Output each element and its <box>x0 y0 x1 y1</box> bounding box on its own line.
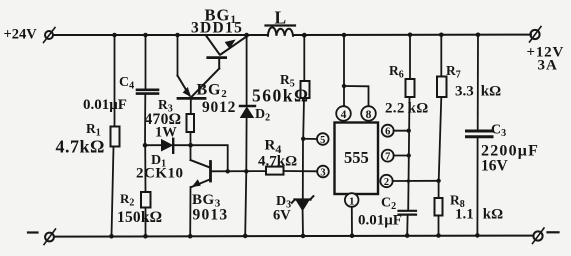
zener D3 <box>292 196 314 210</box>
wire top rail left of inductor <box>53 34 268 36</box>
svg-text:0.01μF: 0.01μF <box>83 97 127 113</box>
wire D1 node down to BG3 collector <box>190 145 192 160</box>
wire D3 to bottom rail <box>302 210 304 236</box>
resistor R5 <box>301 81 310 98</box>
svg-text:1: 1 <box>349 196 355 208</box>
pin 5 circle <box>317 133 329 146</box>
svg-text:4.7kΩ: 4.7kΩ <box>258 154 297 170</box>
node bottom rail D3 <box>301 234 306 239</box>
wire pin2 line to R8 branch <box>393 180 439 182</box>
resistor R1 branch wire top <box>114 35 116 127</box>
wire pin6 stub <box>394 130 409 132</box>
svg-text:3A: 3A <box>538 58 558 74</box>
pin 1 circle <box>345 193 359 207</box>
svg-text:8: 8 <box>366 109 372 121</box>
svg-text:R7: R7 <box>446 63 461 81</box>
pin 2 circle <box>380 175 392 188</box>
svg-text:4.7kΩ: 4.7kΩ <box>56 137 105 157</box>
resistor R8 <box>435 198 443 216</box>
wire R4 to pin3 <box>284 170 318 172</box>
resistor R7 <box>437 77 447 98</box>
pin 3 circle <box>317 166 329 179</box>
node pin5 <box>301 137 305 141</box>
svg-text:C4: C4 <box>119 75 134 92</box>
svg-text:6: 6 <box>385 127 390 138</box>
minus sign left <box>28 231 38 233</box>
svg-text:C3: C3 <box>491 123 506 140</box>
svg-text:+24V: +24V <box>4 27 38 43</box>
node bottom rail R1 <box>109 234 114 239</box>
svg-text:D2: D2 <box>255 107 270 124</box>
wire top rail right of inductor <box>293 34 531 36</box>
terminal minus bottom-right <box>533 228 545 244</box>
svg-text:2: 2 <box>384 177 389 188</box>
terminal +24V input <box>44 28 56 43</box>
svg-text:7: 7 <box>385 152 390 163</box>
terminal +12V output <box>530 27 542 43</box>
wire C3 branch from rail <box>477 35 479 130</box>
svg-text:5: 5 <box>320 135 325 146</box>
wire pin5 stub <box>303 138 317 140</box>
svg-text:4: 4 <box>341 109 347 121</box>
wire R3 to D1 node <box>190 132 192 145</box>
wire 555 supply branch <box>343 35 345 107</box>
node bottom rail C2 <box>405 233 410 238</box>
diode D1 wire left <box>145 144 162 146</box>
node base-D2 junction <box>244 169 248 173</box>
svg-text:2CK10: 2CK10 <box>136 166 184 182</box>
wire R2 to bottom rail <box>145 208 147 237</box>
node top rail 555 supply <box>342 33 347 38</box>
wire pin5 node down to D3 <box>302 139 304 199</box>
node pin2 crossing <box>407 179 411 183</box>
wire R6 down to C2 <box>408 97 409 210</box>
node D1 right junction <box>188 143 193 148</box>
svg-text:555: 555 <box>344 148 369 167</box>
svg-text:0.01μF: 0.01μF <box>358 213 402 229</box>
transistor BG1 <box>207 36 246 68</box>
svg-text:150kΩ: 150kΩ <box>117 209 162 226</box>
svg-text:1.1kΩ: 1.1kΩ <box>455 207 503 223</box>
node pin2-R8 junction <box>436 179 440 183</box>
node bottom rail R8 <box>436 233 441 238</box>
inductor L <box>266 26 296 36</box>
svg-text:16V: 16V <box>481 158 509 175</box>
svg-text:6V: 6V <box>273 208 291 224</box>
pin 4 circle <box>336 106 351 121</box>
node pin6 junction <box>407 129 411 133</box>
capacitor C2 <box>399 211 417 215</box>
pin 6 circle <box>382 125 394 138</box>
wire R6 branch from rail <box>409 35 411 79</box>
minus sign right <box>548 231 559 233</box>
wire BG2 emitter from rail <box>177 35 179 76</box>
wire BG3 emitter to bottom rail <box>189 187 191 236</box>
wire BG2 base to R3 <box>190 100 192 114</box>
pin 7 circle <box>382 150 394 163</box>
svg-text:C2: C2 <box>381 196 396 213</box>
wire pin8 branch <box>344 86 369 106</box>
wire D1 node corner to base line <box>191 145 228 171</box>
node bottom rail BG3 <box>188 234 193 239</box>
node pin4-8 branch <box>342 84 346 88</box>
wire R7 down to pin2 node <box>439 97 442 181</box>
transistor BG2 <box>178 76 206 99</box>
diode D1 <box>162 139 174 153</box>
wire D2 node to bottom rail <box>245 171 246 236</box>
capacitor C3 <box>467 131 493 137</box>
node bottom rail R2 <box>143 234 148 239</box>
wire BG3 base line <box>212 170 266 172</box>
svg-text:L: L <box>275 8 287 28</box>
svg-text:3: 3 <box>320 168 325 179</box>
wire D2 to base line <box>245 118 247 172</box>
svg-text:2.2kΩ: 2.2kΩ <box>385 101 429 117</box>
terminal minus bottom-left <box>44 229 56 245</box>
node top rail R5 <box>302 33 307 38</box>
wire C3 to bottom rail <box>476 138 478 235</box>
svg-text:R2: R2 <box>120 191 134 209</box>
svg-text:9012: 9012 <box>202 99 236 116</box>
wire R5 branch from rail <box>303 35 305 81</box>
svg-text:R6: R6 <box>389 63 404 81</box>
wire pin2 node to R8 <box>438 181 440 198</box>
wire C4 branch top <box>145 35 147 89</box>
wire C2 to bottom rail <box>406 216 408 236</box>
node top rail R6 <box>408 33 413 38</box>
wire R1 to bottom rail <box>112 147 114 237</box>
capacitor C4 <box>137 90 158 94</box>
wire D1 to R3 node <box>174 144 191 146</box>
node top rail R7 <box>439 33 444 38</box>
wire pin1 to bottom rail <box>351 207 353 236</box>
wire C4 to D1 node <box>144 95 146 145</box>
svg-text:1W: 1W <box>155 125 177 141</box>
node top rail R1 <box>112 33 117 38</box>
resistor R1 <box>111 127 120 147</box>
wire pin7 stub <box>394 155 409 157</box>
node top rail C4 <box>143 33 148 38</box>
resistor R6 <box>406 79 415 97</box>
resistor R2 <box>141 192 151 208</box>
wire R8 to bottom rail <box>438 216 440 236</box>
wire bottom rail <box>54 236 533 237</box>
node bottom rail D2 <box>243 234 248 239</box>
node pin7 junction <box>407 153 411 157</box>
transistor BG3 <box>191 160 211 187</box>
wire D1 node to R2 <box>144 145 146 192</box>
node top rail C3 <box>476 33 481 38</box>
node top rail BG1 emitter / D2 <box>244 33 249 38</box>
node D1 left junction <box>143 143 148 148</box>
pin 8 circle <box>361 106 376 121</box>
svg-text:3DD15: 3DD15 <box>191 20 243 37</box>
resistor R4 <box>266 167 284 175</box>
wire R5 to pin5 node <box>302 98 305 139</box>
node base-D1 junction <box>226 169 230 173</box>
svg-text:560kΩ: 560kΩ <box>252 86 310 106</box>
wire R7 branch from rail <box>440 35 442 77</box>
diode D2 <box>240 106 255 118</box>
IC U1 555 box <box>335 123 379 195</box>
node top rail BG2 <box>175 33 180 38</box>
svg-text:9013: 9013 <box>193 207 229 224</box>
wire BG2 collector slant <box>192 69 220 97</box>
resistor R3 <box>187 114 195 132</box>
node bottom rail C3 <box>475 233 480 238</box>
svg-text:BG2: BG2 <box>197 82 228 101</box>
wire D2 branch from rail <box>246 35 248 105</box>
node bottom rail pin1 <box>350 233 355 238</box>
